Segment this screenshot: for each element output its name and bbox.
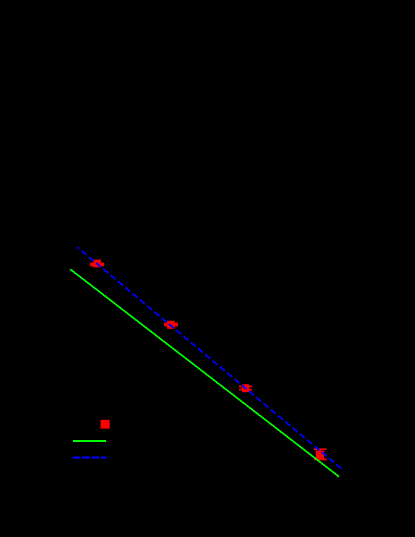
data marker 1 <box>93 260 101 268</box>
blue dashed fit line <box>77 247 343 470</box>
legend marker sample (red square) <box>101 420 110 429</box>
error bar point 3 <box>239 386 252 389</box>
error bar point 1 <box>90 263 104 267</box>
legend green line sample <box>73 440 106 442</box>
data marker 2 <box>167 321 175 329</box>
data marker 3 <box>242 384 249 392</box>
error bar point 4 <box>314 449 327 459</box>
error bar point 2 <box>164 324 178 326</box>
data marker 4 <box>316 451 324 460</box>
legend blue dashed line sample <box>73 457 107 459</box>
green solid fit line <box>70 269 339 477</box>
